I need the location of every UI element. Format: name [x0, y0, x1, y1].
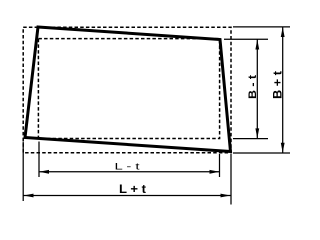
extension line top (y=26.9) for B+t	[233, 26, 290, 28]
dimension L+t line	[24, 195, 231, 197]
extension line top (y=39.3) for B-t	[224, 38, 268, 40]
dimension L-t left arrow	[39, 170, 49, 174]
dimension B+t bottom arrow	[281, 143, 285, 153]
outer dashed rectangle (L+t x B+t envelope)	[23, 27, 231, 153]
dimension B-t line	[256, 40, 258, 139]
extension line left (x=23) for L+t	[22, 142, 24, 202]
dimension L+t left arrow	[24, 194, 34, 198]
extension line (x=231) for L+t	[230, 154, 232, 205]
dimension L-t line	[39, 171, 220, 173]
extension line (x=219.5) for L-t	[219, 154, 221, 177]
dimension B-t bottom arrow	[255, 128, 259, 138]
dimension B+t line	[282, 27, 284, 153]
plate outline (thick skewed quadrilateral)	[25, 27, 231, 152]
extension line (x=39) for L-t	[38, 142, 40, 178]
extension line bottom (y=153) for B+t	[233, 152, 290, 154]
extension line bottom (y=138.6) for B-t	[233, 138, 268, 140]
dimension B+t top arrow	[281, 27, 285, 37]
dimension L-t right arrow	[210, 170, 220, 174]
svg-text:B - t: B - t	[247, 75, 259, 99]
dimension L+t right arrow	[221, 194, 231, 198]
inner dashed rectangle (L-t x B-t envelope)	[38, 39, 219, 139]
svg-text:L + t: L + t	[119, 184, 146, 196]
dimension B-t top arrow	[255, 40, 259, 50]
svg-text:B + t: B + t	[273, 71, 285, 99]
svg-text:L - t: L - t	[115, 162, 141, 172]
